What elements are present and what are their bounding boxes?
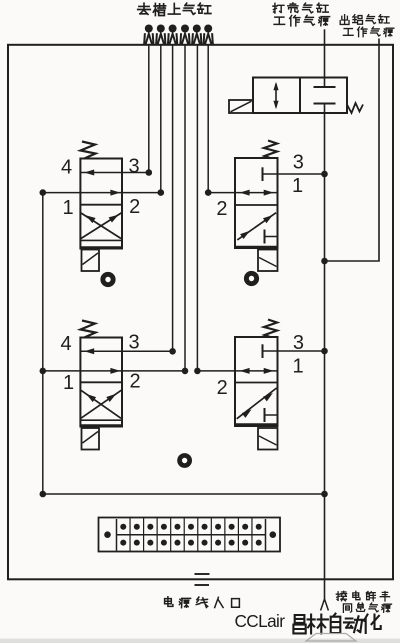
label 打壳气缸: [273, 3, 284, 13]
solenoid coil U1: [82, 250, 100, 272]
label 去槽上气缸: [138, 3, 151, 14]
valve U3 chamber divider: [80, 381, 122, 383]
quick coupler P5: [193, 25, 201, 33]
quick coupler P1: [145, 25, 153, 33]
svg-text:2: 2: [129, 371, 140, 393]
watermark trapezoid mark: [306, 634, 356, 642]
valve U2 blocked port3 bar: [262, 167, 264, 181]
wire U4 blocked port stub: [265, 414, 278, 416]
valve U1 lower chamber line: [80, 239, 122, 241]
valve U1 port3 flow arrow: [84, 170, 94, 176]
label 出铝气缸: [340, 15, 349, 25]
junction node P1 wire: [146, 169, 153, 176]
muffler U4: [177, 453, 192, 468]
label 工作气源 (打壳): [274, 17, 285, 24]
valve U4 spring: [264, 320, 277, 338]
svg-text:1: 1: [292, 175, 303, 197]
svg-text:4: 4: [61, 156, 72, 178]
junction node B (出铝 tie): [321, 258, 328, 265]
valve U4 thick base: [235, 423, 278, 426]
label 间总气源: [343, 604, 351, 612]
valve U3 port3 flow arrow: [84, 348, 94, 354]
valve U2 body: [235, 158, 278, 248]
svg-text:3: 3: [293, 152, 304, 174]
valve U3 spring: [81, 321, 96, 338]
valve U2 spring: [264, 141, 277, 159]
wire U3 port3 to P3: [80, 350, 172, 352]
label 接电解车: [336, 591, 346, 601]
valve U4 blocked port3 bar: [262, 344, 264, 358]
solenoid coil U5: [229, 100, 253, 113]
wire supply line upper segment: [324, 29, 326, 87]
junction node F: [40, 368, 47, 375]
junction node E: [40, 189, 47, 196]
wire U4 port3 to node C: [263, 350, 325, 352]
valve U3 thick base: [80, 424, 122, 427]
solenoid coil U3: [82, 428, 100, 450]
quick coupler P6: [204, 25, 212, 33]
wire U4 port2: [197, 370, 277, 372]
junction node D (bottom bus): [321, 491, 328, 498]
terminal block TB1 frame: [99, 518, 281, 552]
svg-text:2: 2: [217, 377, 228, 399]
valve U2 thick base: [235, 246, 278, 249]
wire from coupler P2: [160, 45, 162, 193]
valve U5 blocked port top: [314, 86, 336, 88]
valve U5 body: [253, 78, 347, 114]
valve U1 cross path 2: [81, 213, 121, 239]
valve U2 chamber divider: [235, 204, 278, 206]
wire U2 port3 to node A: [263, 173, 325, 175]
terminal block TB1 contacts: [120, 524, 126, 530]
junction node A (U2 port3): [321, 171, 328, 178]
valve U5 chamber divider: [299, 78, 301, 114]
wire U2 blocked port stub: [265, 236, 278, 238]
valve U2 exhaust diagonal: [237, 213, 276, 240]
valve U3 lower chamber line: [80, 419, 122, 421]
junction node P4 wire: [182, 368, 189, 375]
svg-text:3: 3: [293, 332, 304, 354]
valve U1 chamber divider: [80, 204, 122, 206]
wire bottom bus: [43, 493, 325, 495]
muffler U1: [100, 272, 115, 287]
junction node P2 wire: [158, 189, 165, 196]
label 电源线入口: [165, 597, 173, 607]
valve U1 spring: [81, 142, 96, 159]
muffler U2: [244, 271, 259, 286]
wire from coupler P1: [148, 45, 150, 173]
wire from coupler P6: [207, 45, 209, 193]
svg-text:1: 1: [292, 355, 303, 377]
valve U1 body: [80, 159, 122, 249]
wire U1 port3 to P1: [80, 172, 148, 174]
label 工作气源 (出铝): [343, 29, 353, 36]
valve U2 double arrow: [240, 190, 250, 196]
valve U4 body: [235, 337, 278, 426]
valve U1 cross path 1: [81, 213, 121, 239]
valve U4 double arrow: [240, 368, 250, 374]
wire supply line lower segment: [324, 104, 326, 600]
watermark 昌林自动化: [293, 615, 305, 633]
svg-text:CCLair: CCLair: [235, 611, 286, 631]
valve U1 thick base: [80, 246, 122, 249]
wire U2 port2: [208, 192, 277, 194]
valve U3 port2 flow arrow: [110, 368, 120, 374]
valve U4 exhaust diagonal: [237, 388, 277, 419]
wire from coupler P3: [172, 45, 174, 351]
wire from coupler P4: [184, 45, 186, 371]
quick coupler P2: [157, 25, 165, 33]
valve U5 flow path double arrow: [275, 84, 277, 107]
junction node P5 wire: [194, 368, 201, 375]
valve U4 chamber divider: [235, 382, 278, 384]
valve U3 cross path 2: [81, 390, 121, 418]
wire U3 port1-2 rail: [43, 370, 185, 372]
wire from coupler P5: [196, 45, 198, 371]
junction node C (U4 port3): [321, 348, 328, 355]
supply inlet arrow: [321, 599, 329, 611]
svg-text:2: 2: [129, 196, 140, 218]
svg-text:2: 2: [216, 198, 227, 220]
solenoid coil U2: [258, 250, 278, 272]
wire 出铝气缸 line: [325, 39, 380, 262]
valve U3 body: [80, 338, 122, 427]
valve U3 cross path 1: [81, 390, 121, 418]
valve U4 blocked port bar (bottom): [264, 408, 266, 422]
junction node G: [40, 491, 47, 498]
svg-text:1: 1: [62, 197, 73, 219]
svg-text:4: 4: [60, 333, 71, 355]
wire left bus: [42, 193, 44, 494]
junction node P3 wire: [169, 348, 176, 355]
junction node P6 wire: [205, 189, 212, 196]
solenoid coil U4: [258, 428, 278, 450]
svg-text:3: 3: [128, 332, 139, 354]
svg-text:1: 1: [63, 372, 74, 394]
valve U5 return spring: [347, 103, 363, 113]
quick coupler P3: [169, 25, 177, 33]
svg-text:3: 3: [128, 155, 139, 177]
valve U2 blocked port bar (bottom): [264, 230, 266, 244]
valve U1 port2 flow arrow: [110, 190, 120, 196]
quick coupler P4: [181, 25, 189, 33]
valve U5 blocked port bottom: [314, 103, 336, 105]
ground: [195, 573, 210, 575]
scan smudge bottom edge: [0, 639, 400, 643]
wire U1 port1-2 rail: [43, 192, 161, 194]
